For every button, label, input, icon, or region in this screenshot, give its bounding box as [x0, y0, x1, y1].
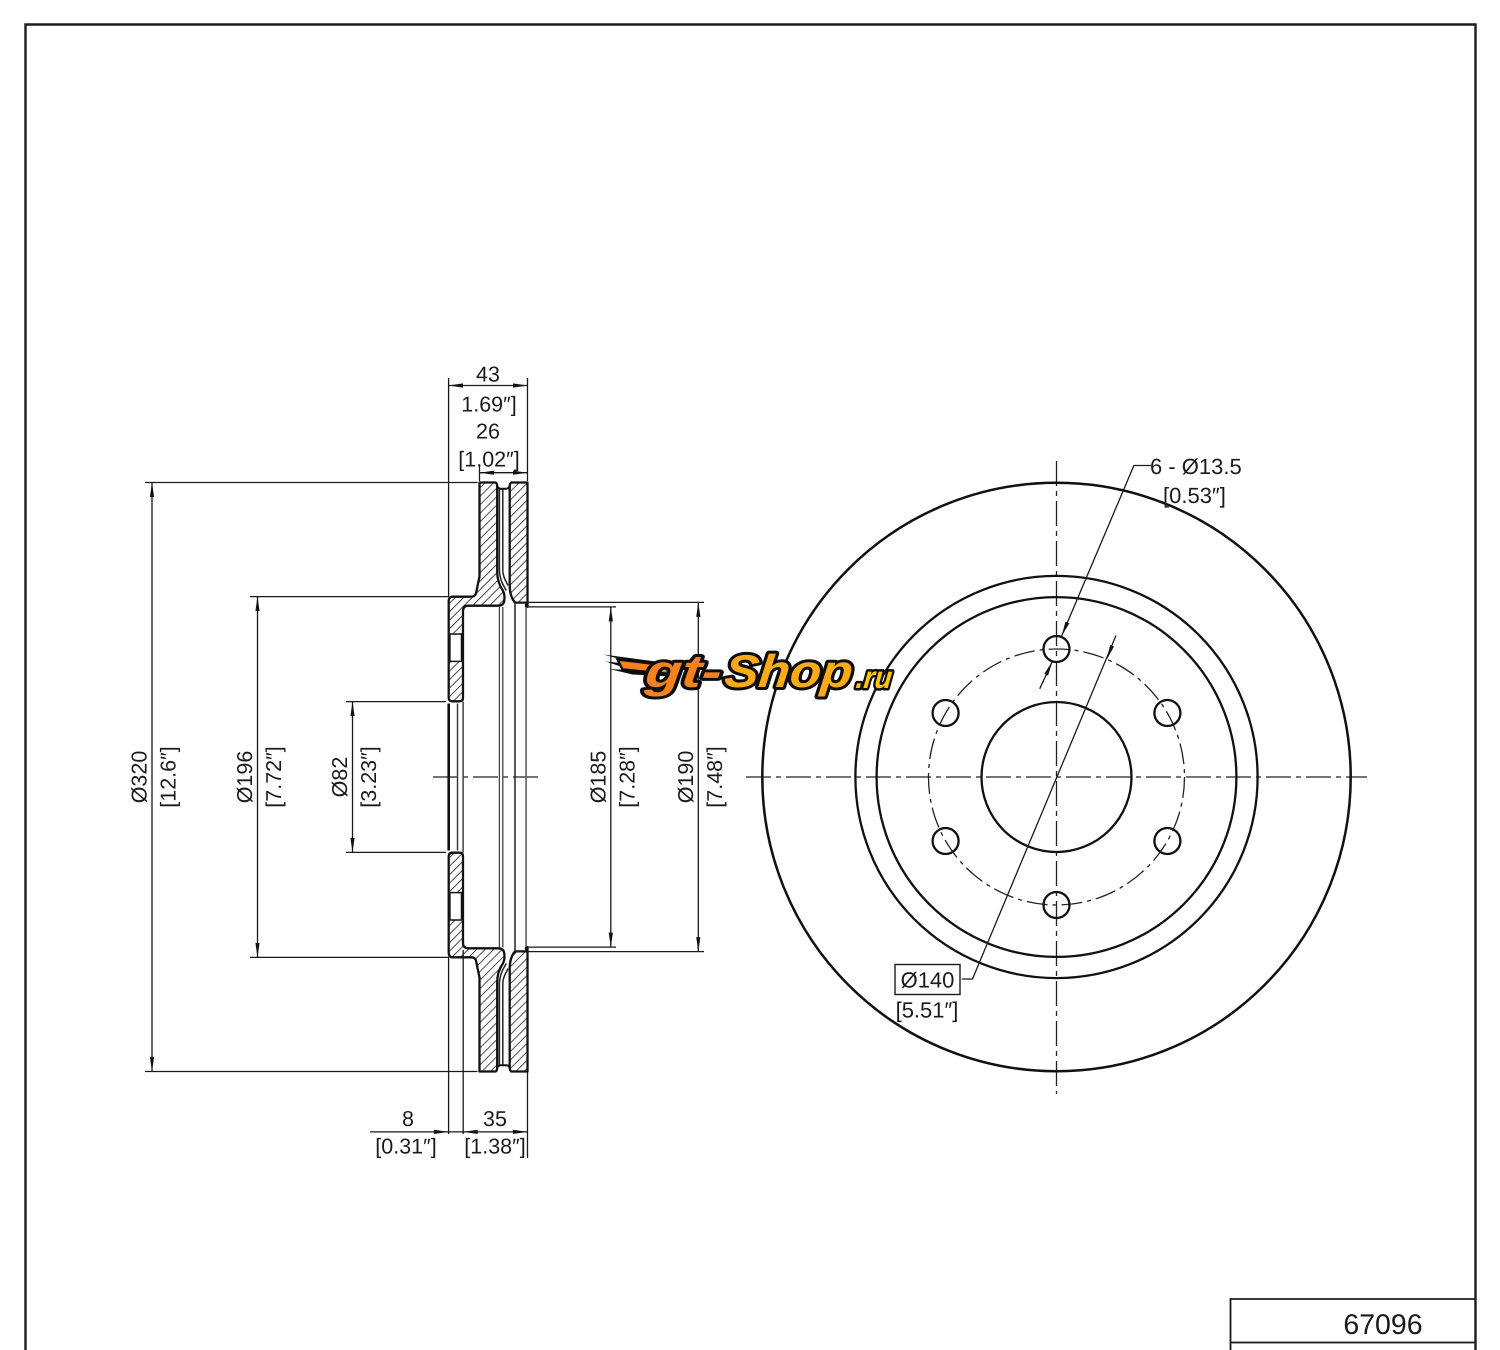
svg-text:gt-: gt- — [642, 645, 725, 697]
svg-text:Ø190: Ø190 — [674, 751, 698, 804]
dimension O196 [7.72"] — [250, 597, 449, 958]
svg-text:[7.72″]: [7.72″] — [262, 746, 286, 807]
title block — [1231, 1299, 1476, 1350]
wheel stud hole in flange (bottom) — [450, 893, 462, 920]
bolt hole top O13.5 — [1044, 636, 1070, 662]
leader O140 — [962, 636, 1116, 980]
section hatched body: outboard plate and hat (top half) — [449, 483, 505, 702]
vent vane edges in channel (bottom) — [499, 964, 508, 1065]
svg-text:[7.28″]: [7.28″] — [615, 746, 639, 807]
dimension 8 [0.31"] — [370, 950, 463, 1134]
section centerline — [433, 776, 539, 778]
svg-text:6 - Ø13.5: 6 - Ø13.5 — [1150, 454, 1242, 479]
bolt circle O140 (dash-dot) — [929, 649, 1185, 905]
section hatched body: inboard friction plate (top half) — [510, 483, 528, 607]
svg-text:Ø140: Ø140 — [901, 968, 955, 993]
svg-text:1.69″]: 1.69″] — [461, 393, 516, 417]
bolt hole lower-right O13.5 — [1154, 828, 1180, 854]
friction band inner edge lines (O190, O185) — [514, 603, 516, 952]
wheel stud hole in flange (top) — [450, 634, 462, 661]
svg-text:[1.38″]: [1.38″] — [464, 1135, 525, 1159]
svg-text:[0.31″]: [0.31″] — [375, 1135, 436, 1159]
dimension O82 [3.23"] — [346, 702, 446, 853]
svg-text:[5.51″]: [5.51″] — [896, 998, 959, 1023]
front view vertical centerline — [1056, 461, 1058, 1094]
vent channel OD notch (bottom) — [497, 1065, 510, 1068]
dimension 35 [1.38"] — [463, 1073, 527, 1159]
svg-text:Ø196: Ø196 — [233, 751, 257, 804]
svg-text:[0.53″]: [0.53″] — [1163, 483, 1226, 508]
dimension 43 [1.69"] — [449, 378, 528, 597]
section hatched body: inboard friction plate (bottom half) — [510, 947, 528, 1071]
svg-text:[1.02″]: [1.02″] — [458, 448, 519, 472]
svg-text:Ø320: Ø320 — [128, 751, 152, 804]
vent channel visible edges through section — [499, 607, 502, 948]
bolt hole upper-left O13.5 — [933, 700, 959, 726]
svg-text:26: 26 — [476, 420, 500, 444]
svg-text:[7.48″]: [7.48″] — [703, 746, 727, 807]
front view horizontal centerline — [746, 776, 1367, 778]
bolt hole bottom O13.5 — [1044, 892, 1070, 918]
leader 6-O13.5 — [1062, 466, 1151, 636]
opposite arrow for O13.5 — [1040, 662, 1053, 689]
bolt hole upper-right O13.5 — [1154, 700, 1180, 726]
hub bore circle O82 — [982, 702, 1132, 852]
svg-text:8: 8 — [402, 1107, 414, 1131]
disc outer circle O320 — [762, 483, 1350, 1071]
dimension 26 [1.02"] — [480, 465, 528, 481]
svg-text:43: 43 — [476, 363, 500, 387]
svg-text:Ø185: Ø185 — [586, 751, 610, 804]
vent vane edges in channel (top) — [499, 490, 508, 591]
svg-text:35: 35 — [483, 1107, 507, 1131]
svg-text:[12.6″]: [12.6″] — [157, 746, 181, 807]
dimension O185 [7.28"] — [527, 607, 616, 947]
label O140 box — [895, 965, 960, 995]
gt-shop.ru logo — [604, 645, 896, 697]
bolt hole lower-left O13.5 — [933, 828, 959, 854]
dimension O320 [12.6"] — [145, 483, 478, 1072]
svg-text:67096: 67096 — [1343, 1309, 1422, 1341]
label [5.51"] — [896, 998, 959, 1023]
svg-text:.ru: .ru — [854, 660, 894, 695]
svg-text:Ø82: Ø82 — [328, 757, 352, 798]
svg-text:Shop: Shop — [722, 645, 855, 697]
vent channel OD notch (top) — [497, 486, 510, 489]
svg-text:[3.23″]: [3.23″] — [357, 746, 381, 807]
label 6-O13.5 [0.53"] — [1150, 454, 1242, 508]
friction band inner circle — [855, 576, 1257, 978]
bore and hub visible edges through section — [447, 704, 450, 851]
dimension O190 [7.48"] — [516, 602, 705, 951]
hat outer circle — [877, 597, 1237, 957]
part number 67096 — [1343, 1309, 1422, 1341]
section hatched body: outboard plate and hat (bottom half) — [449, 853, 505, 1072]
